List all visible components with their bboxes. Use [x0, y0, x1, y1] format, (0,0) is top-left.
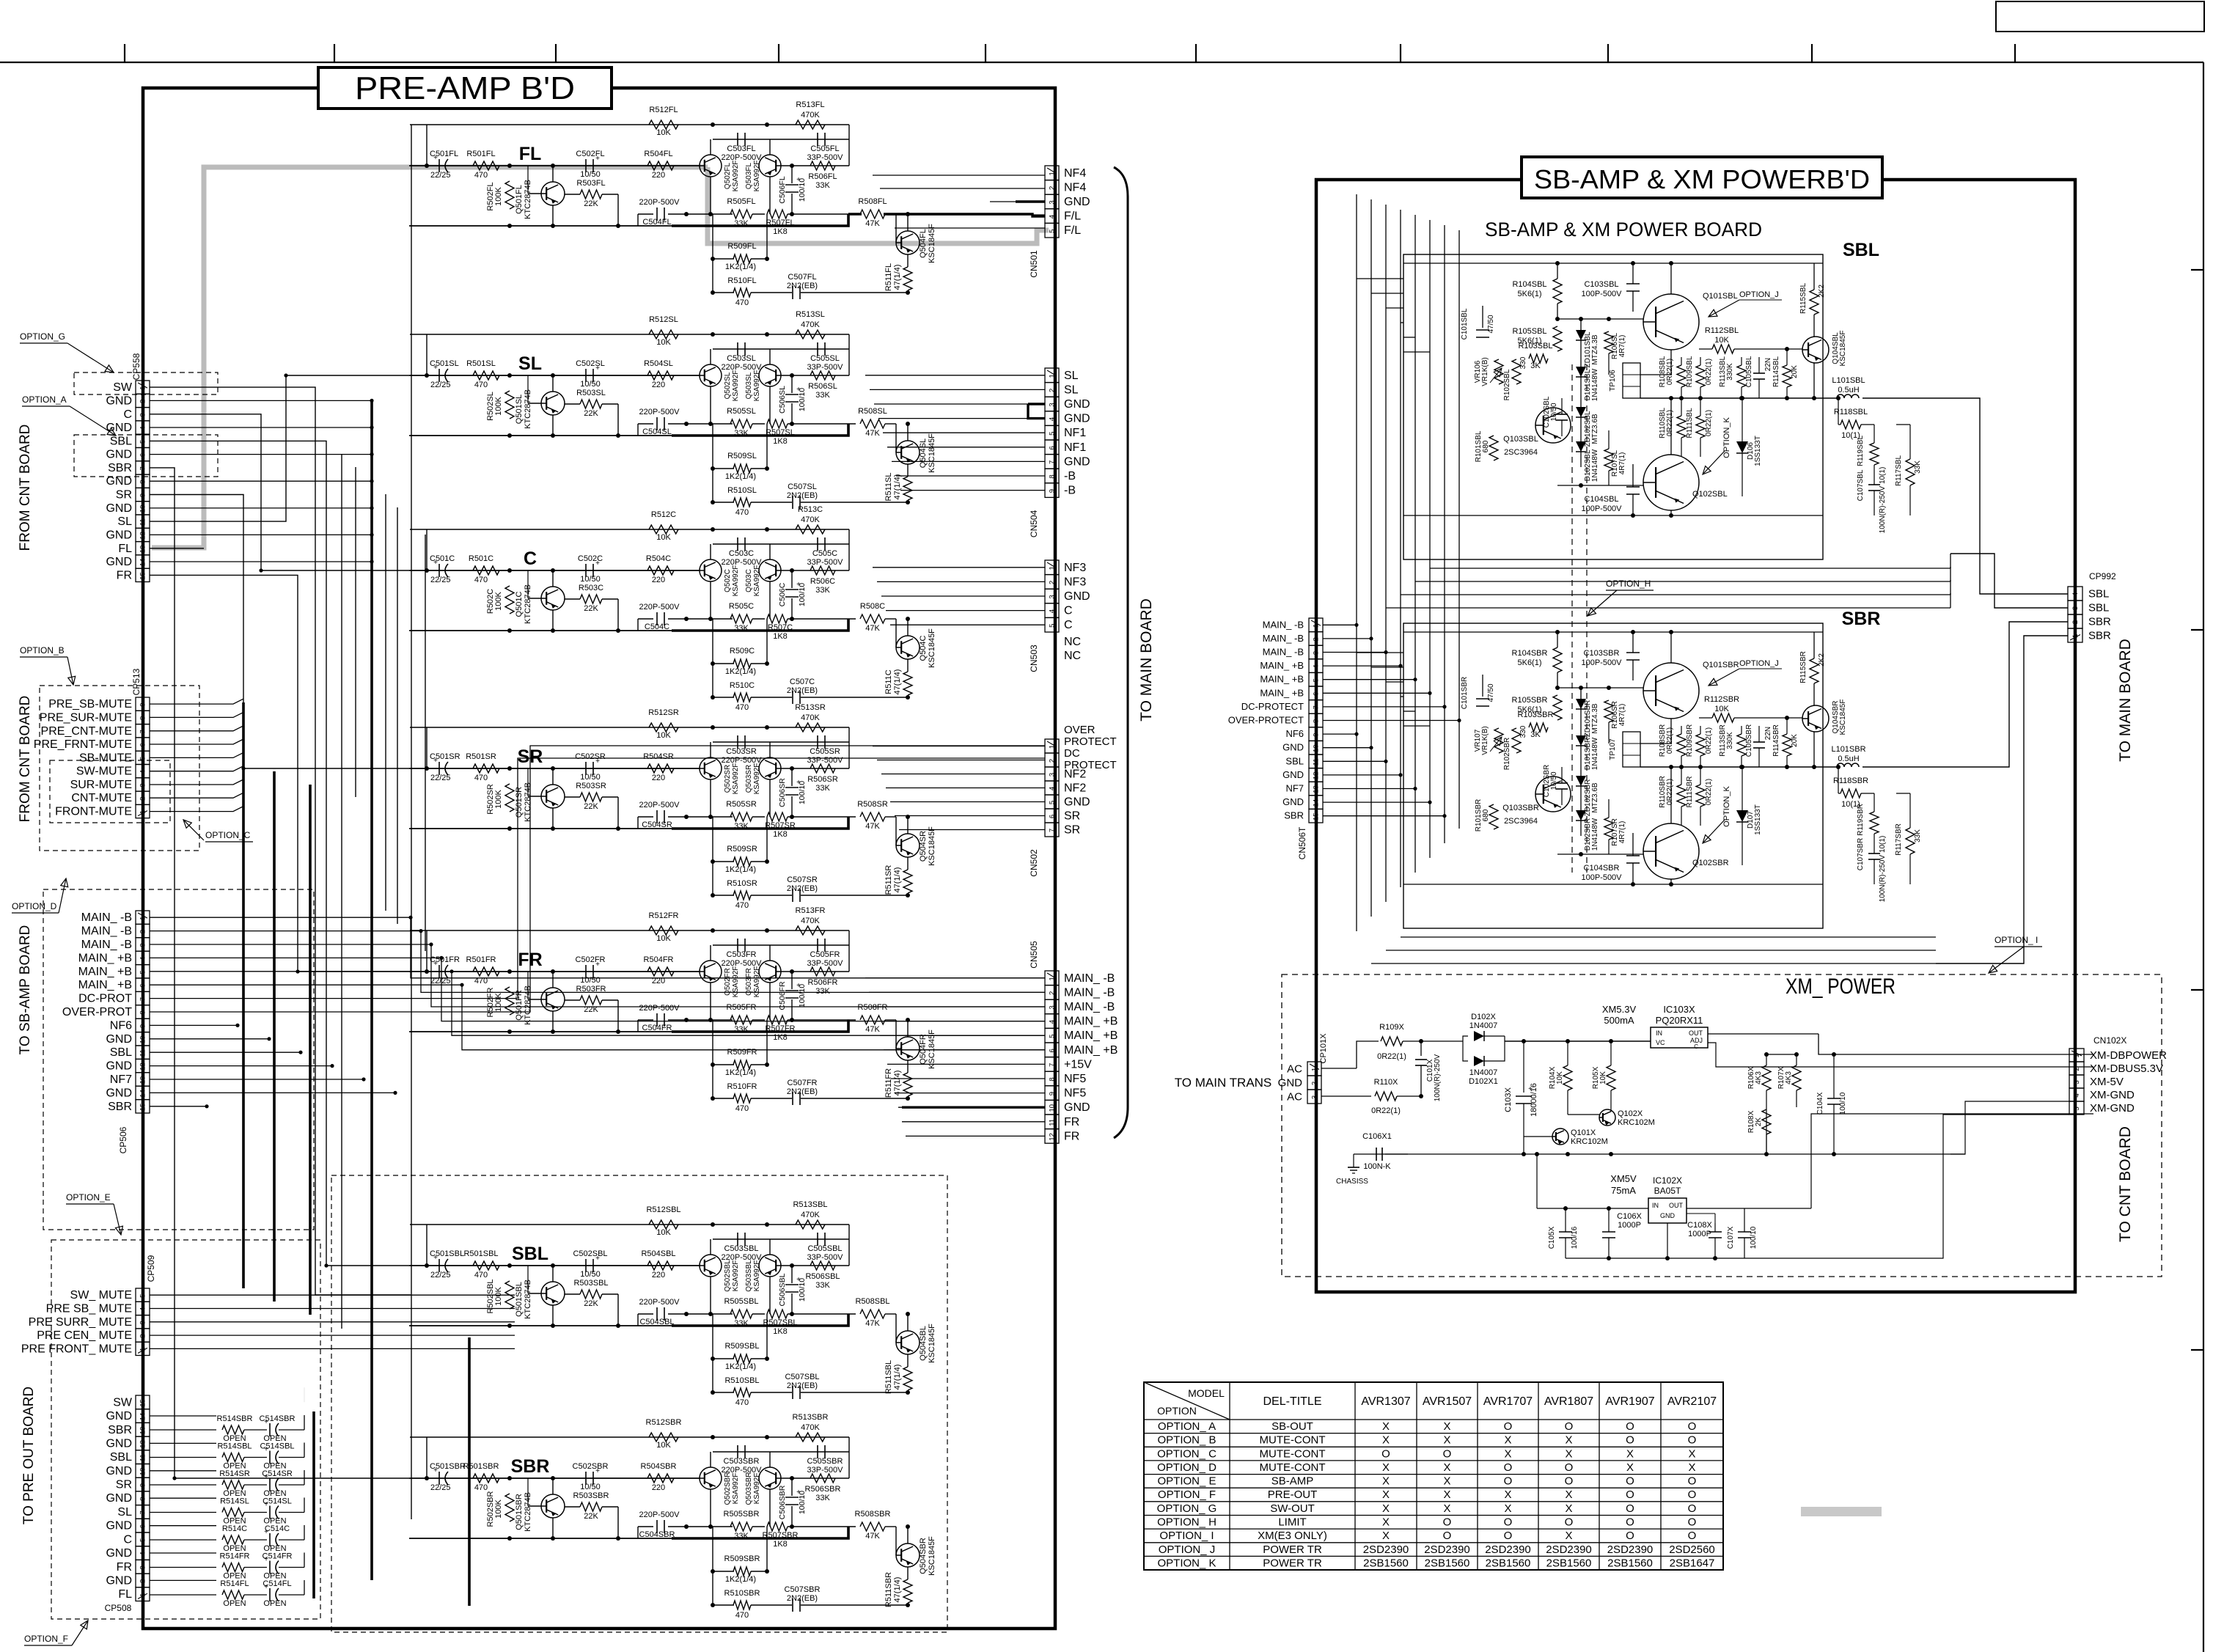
- svg-text:Q502FR: Q502FR: [724, 968, 732, 996]
- svg-text:OPTION_H: OPTION_H: [1606, 579, 1651, 589]
- svg-text:2: 2: [1313, 637, 1321, 641]
- svg-text:47K: 47K: [865, 1319, 880, 1328]
- capacitor C104X 100/10: [1827, 1098, 1841, 1099]
- svg-text:Q503FL: Q503FL: [745, 162, 753, 189]
- svg-text:KTC2874B: KTC2874B: [524, 1280, 532, 1319]
- svg-text:NF6: NF6: [110, 1019, 132, 1032]
- capacitor C101X 100N(R)-250V: [1420, 1041, 1422, 1056]
- right border tick: [2191, 629, 2203, 631]
- svg-text:9: 9: [139, 493, 147, 497]
- svg-text:Q101SBL: Q101SBL: [1703, 292, 1738, 301]
- wire rail to CN102X pin2: [1708, 1043, 2093, 1067]
- svg-text:PQ20RX11: PQ20RX11: [1656, 1015, 1703, 1026]
- svg-text:470: 470: [474, 171, 488, 180]
- resistor R512SBL 10K: [649, 1220, 678, 1229]
- svg-text:NF4: NF4: [1064, 167, 1086, 180]
- svg-text:C507FL: C507FL: [788, 273, 816, 282]
- transistor Q102X KRC102M: [1599, 1109, 1615, 1126]
- svg-text:Q502C: Q502C: [724, 569, 732, 592]
- svg-text:10K: 10K: [1714, 705, 1729, 713]
- transistor Q103SBL 2SC3964: [1535, 408, 1571, 443]
- transistor Q101X KRC102M: [1552, 1128, 1568, 1145]
- svg-text:C504FR: C504FR: [642, 1024, 672, 1032]
- svg-text:C514SL: C514SL: [263, 1497, 292, 1506]
- svg-text:SBR: SBR: [108, 1101, 132, 1113]
- svg-text:MTZ4.3B: MTZ4.3B: [1591, 334, 1599, 364]
- svg-text:R503C: R503C: [579, 584, 603, 592]
- wire Q102 base rail: [1557, 853, 1643, 855]
- svg-text:14: 14: [139, 1090, 147, 1098]
- svg-text:15: 15: [139, 1104, 147, 1112]
- svg-text:O: O: [1565, 1420, 1574, 1433]
- svg-text:GND: GND: [1282, 769, 1304, 780]
- svg-text:0R22(1): 0R22(1): [1705, 779, 1713, 805]
- resistor R503SL 22K: [580, 400, 602, 408]
- channel C input wire: [409, 570, 700, 571]
- svg-text:0R22(1): 0R22(1): [1377, 1052, 1406, 1061]
- resistor R512FR 10K: [649, 926, 678, 935]
- svg-text:C514SBR: C514SBR: [260, 1414, 296, 1423]
- resistor R514SL OPEN: [150, 1512, 216, 1513]
- transistor Q502FL KSA992F: [700, 155, 722, 177]
- CP513 spine wire: [142, 820, 144, 911]
- svg-text:R506SBL: R506SBL: [805, 1272, 840, 1281]
- svg-text:1000P: 1000P: [1618, 1221, 1641, 1230]
- svg-text:2K2: 2K2: [1818, 284, 1826, 298]
- svg-text:F/L: F/L: [1064, 224, 1081, 237]
- svg-text:12: 12: [139, 1440, 147, 1448]
- svg-text:10/50: 10/50: [1550, 771, 1558, 790]
- gray highlighted FL signal trace: [152, 167, 708, 548]
- svg-text:3: 3: [139, 943, 147, 947]
- svg-text:8: 8: [1049, 474, 1057, 478]
- svg-text:R112SBR: R112SBR: [1704, 695, 1739, 704]
- svg-text:4: 4: [1049, 787, 1057, 790]
- svg-text:R501SR: R501SR: [466, 752, 496, 761]
- svg-text:R501SBL: R501SBL: [463, 1249, 498, 1258]
- svg-text:XM_ POWER: XM_ POWER: [1786, 974, 1895, 999]
- resistor R508SR 47K: [860, 812, 885, 821]
- resistor R508SBL 47K: [860, 1310, 885, 1318]
- svg-text:10K: 10K: [656, 731, 671, 740]
- CP509 spine wire: [142, 1357, 144, 1395]
- transistor Q503SL KSA992F: [759, 364, 781, 386]
- diode D107 1SS133T: [1736, 810, 1748, 822]
- svg-text:C505FR: C505FR: [810, 950, 840, 959]
- resistor R503SR 22K: [580, 793, 602, 801]
- svg-text:PRE_SB-MUTE: PRE_SB-MUTE: [48, 698, 132, 711]
- svg-text:2: 2: [139, 400, 147, 403]
- resistor R119SBR 10(1): [1870, 812, 1879, 834]
- svg-text:47K: 47K: [865, 624, 880, 633]
- svg-text:R508SR: R508SR: [857, 800, 888, 809]
- svg-text:MAIN_ +B: MAIN_ +B: [1260, 687, 1304, 698]
- svg-text:R510FR: R510FR: [727, 1082, 757, 1091]
- wire CP558 pin1 SW route: [150, 387, 411, 1295]
- svg-text:9: 9: [139, 1483, 147, 1487]
- svg-text:C106X: C106X: [1617, 1212, 1642, 1221]
- svg-text:X: X: [1565, 1502, 1572, 1515]
- svg-text:6: 6: [1049, 1049, 1057, 1052]
- svg-text:Q503SR: Q503SR: [745, 765, 753, 793]
- svg-text:X: X: [1565, 1530, 1572, 1542]
- resistor R505SBL 33K: [730, 1310, 752, 1318]
- svg-text:4: 4: [139, 426, 147, 430]
- svg-text:10K: 10K: [656, 1441, 671, 1450]
- svg-text:R511FL: R511FL: [884, 263, 893, 291]
- svg-text:6: 6: [1049, 815, 1057, 818]
- svg-text:SBL: SBL: [2088, 588, 2109, 601]
- svg-text:X: X: [1382, 1530, 1390, 1542]
- resistor R507SL 1K8: [767, 419, 788, 428]
- NFB bold wire: [672, 424, 848, 436]
- wire C503/C505 row: [713, 1451, 849, 1453]
- wire CP558 GND stub: [150, 454, 372, 455]
- svg-text:R513C: R513C: [798, 505, 823, 514]
- right border tick: [2191, 1349, 2203, 1351]
- capacitor C501FR 22/25: [438, 965, 440, 978]
- svg-text:FROM CNT BOARD: FROM CNT BOARD: [18, 696, 33, 823]
- svg-text:220: 220: [652, 774, 665, 782]
- wire C503/C505 row: [713, 543, 849, 545]
- svg-text:CP513: CP513: [131, 668, 142, 695]
- capacitor C503SL 220P-500V: [737, 342, 738, 356]
- svg-text:KSA992F: KSA992F: [732, 565, 740, 597]
- svg-text:C505SBL: C505SBL: [807, 1244, 842, 1253]
- svg-text:100K: 100K: [494, 1499, 503, 1518]
- wire stubs CP506 lower: [150, 1024, 238, 1026]
- svg-text:100P-500V: 100P-500V: [1581, 504, 1622, 513]
- resistor R504FR 220: [647, 967, 674, 976]
- NFB bold wire: [672, 214, 848, 226]
- svg-text:X: X: [1382, 1475, 1390, 1488]
- svg-text:CHASISS: CHASISS: [1336, 1178, 1368, 1186]
- svg-text:KSA992F: KSA992F: [753, 763, 761, 795]
- svg-text:Q501C: Q501C: [515, 592, 524, 617]
- capacitor C505C 33P-500V: [817, 537, 818, 551]
- transistor Q502SL KSA992F: [700, 364, 722, 386]
- svg-text:+: +: [1528, 1085, 1533, 1093]
- svg-text:R114SBL: R114SBL: [1772, 356, 1780, 388]
- resistor R506SBL 33K: [810, 1261, 835, 1270]
- svg-text:C505FL: C505FL: [810, 144, 839, 153]
- svg-text:KSA992F: KSA992F: [753, 1473, 761, 1505]
- capacitor C506SL 100/10: [791, 375, 793, 393]
- svg-text:R109X: R109X: [1379, 1023, 1404, 1032]
- svg-text:OPTION_ J: OPTION_ J: [1159, 1543, 1216, 1556]
- svg-text:O: O: [1443, 1530, 1452, 1542]
- svg-text:5: 5: [139, 1538, 147, 1542]
- svg-text:GND: GND: [106, 1087, 132, 1099]
- long bottom interconnects SBL: [1430, 568, 1950, 569]
- svg-text:CN504: CN504: [1029, 510, 1039, 537]
- svg-text:C104SBL: C104SBL: [1584, 495, 1618, 504]
- channel C top feedback wire: [410, 529, 849, 530]
- svg-text:R514C: R514C: [222, 1524, 247, 1533]
- svg-text:100K: 100K: [494, 186, 503, 205]
- svg-text:KSC1845F: KSC1845F: [928, 1536, 936, 1576]
- svg-text:GND: GND: [106, 449, 132, 461]
- svg-text:10/50: 10/50: [580, 773, 601, 782]
- resistor R514FR OPEN: [150, 1567, 216, 1568]
- svg-text:10K: 10K: [656, 934, 671, 943]
- resistor R118SBL 10(1): [1838, 424, 1841, 425]
- svg-text:R110X: R110X: [1374, 1078, 1398, 1087]
- svg-text:C506C: C506C: [778, 582, 787, 606]
- svg-text:X: X: [1565, 1447, 1572, 1460]
- svg-text:3: 3: [1049, 595, 1057, 598]
- svg-text:R510SR: R510SR: [727, 879, 757, 888]
- svg-text:C103X: C103X: [1504, 1087, 1513, 1112]
- svg-text:FL: FL: [118, 1588, 132, 1601]
- svg-text:MAIN_ +B: MAIN_ +B: [1260, 660, 1304, 671]
- svg-text:R514SL: R514SL: [220, 1497, 249, 1506]
- svg-text:MAIN_ -B: MAIN_ -B: [81, 939, 132, 951]
- resistor R514SBR OPEN: [150, 1429, 216, 1431]
- svg-text:5: 5: [139, 970, 147, 974]
- svg-text:22K: 22K: [584, 1299, 598, 1308]
- svg-text:22/25: 22/25: [430, 171, 451, 180]
- svg-text:5: 5: [1313, 678, 1321, 682]
- svg-text:Q103SBR: Q103SBR: [1502, 804, 1539, 812]
- svg-text:47(1/4): 47(1/4): [893, 1365, 902, 1390]
- svg-text:X: X: [1504, 1434, 1511, 1447]
- svg-text:L101SBL: L101SBL: [1832, 376, 1865, 385]
- svg-text:10K: 10K: [656, 1228, 671, 1237]
- potentiometer VR106 VR1K(B): [1494, 359, 1503, 384]
- svg-text:X: X: [1443, 1475, 1450, 1488]
- svg-text:R514FL: R514FL: [220, 1579, 249, 1588]
- XM5V rail: [1537, 1208, 1648, 1209]
- transistor Q101SBL: [1643, 294, 1699, 350]
- svg-text:5: 5: [1049, 801, 1057, 804]
- svg-text:Q102X: Q102X: [1618, 1109, 1643, 1118]
- svg-text:C: C: [123, 408, 132, 421]
- svg-text:CN501: CN501: [1029, 250, 1039, 278]
- svg-text:MAIN_ +B: MAIN_ +B: [1064, 1016, 1117, 1028]
- ground CHASISS: [1353, 1154, 1354, 1167]
- svg-text:47K: 47K: [865, 822, 880, 831]
- svg-text:+: +: [796, 176, 801, 184]
- svg-text:2: 2: [139, 1579, 147, 1583]
- svg-text:XM-GND: XM-GND: [2090, 1102, 2135, 1115]
- svg-text:O: O: [1565, 1475, 1574, 1488]
- resistor R108SBR 0R22(1): [1677, 734, 1686, 756]
- channel SR input wire: [409, 768, 700, 769]
- wires channels to CN connectors: [873, 175, 1045, 176]
- svg-text:AVR1707: AVR1707: [1483, 1395, 1533, 1408]
- resistor R501C 470: [473, 566, 499, 575]
- svg-text:O: O: [1688, 1530, 1697, 1542]
- svg-text:R505SBL: R505SBL: [724, 1297, 758, 1306]
- svg-text:Q504FL: Q504FL: [919, 229, 928, 258]
- svg-text:X: X: [1565, 1434, 1572, 1447]
- svg-text:+: +: [796, 1488, 801, 1497]
- svg-text:47(1/4): 47(1/4): [893, 265, 902, 290]
- svg-text:22K: 22K: [584, 604, 598, 613]
- svg-text:1K8: 1K8: [773, 1033, 788, 1042]
- svg-text:C505SL: C505SL: [810, 354, 840, 363]
- inductor L101SBR 0.5uH: [1837, 763, 1859, 767]
- svg-text:6: 6: [1313, 692, 1321, 696]
- svg-text:10: 10: [139, 1036, 147, 1044]
- svg-text:R509FL: R509FL: [727, 242, 756, 251]
- resistor R514SR OPEN: [150, 1484, 216, 1486]
- transistor Q501FR KTC2874B: [541, 988, 565, 1011]
- resistor R505SBR 33K: [730, 1522, 752, 1531]
- svg-text:3K: 3K: [1530, 730, 1541, 739]
- svg-text:2: 2: [1049, 581, 1057, 584]
- svg-text:O: O: [1565, 1516, 1574, 1529]
- svg-text:10K: 10K: [656, 338, 671, 347]
- svg-text:20K: 20K: [1791, 365, 1799, 378]
- resistor R110SBR 0R22(1): [1677, 785, 1686, 807]
- resistor R513FR 470K: [796, 926, 825, 935]
- svg-text:XM-DBPOWER: XM-DBPOWER: [2090, 1049, 2167, 1062]
- svg-text:5: 5: [139, 1294, 147, 1298]
- channel SBR bottom wire: [409, 1538, 672, 1539]
- svg-text:Q503C: Q503C: [745, 569, 753, 592]
- resistor R112SBR 10K: [1712, 713, 1734, 722]
- svg-text:100N(R)-250V 10(1): 100N(R)-250V 10(1): [1879, 836, 1887, 903]
- svg-text:1N4007: 1N4007: [1469, 1068, 1498, 1077]
- svg-text:GND: GND: [1064, 796, 1090, 809]
- svg-text:10K: 10K: [1599, 1071, 1607, 1084]
- svg-text:C506SR: C506SR: [778, 778, 787, 807]
- svg-text:MTZ3.6B: MTZ3.6B: [1591, 782, 1599, 812]
- svg-text:3: 3: [139, 413, 147, 416]
- svg-text:SBL: SBL: [110, 435, 132, 447]
- resistor R506C 33K: [810, 566, 835, 575]
- svg-text:10/50: 10/50: [1550, 403, 1558, 421]
- long vertical risers from C514 column: [468, 1337, 471, 1606]
- resistor R512SR 10K: [649, 723, 678, 732]
- svg-text:R512SL: R512SL: [649, 315, 678, 324]
- capacitor C501SBR 22/25: [438, 1472, 440, 1485]
- svg-text:O: O: [1626, 1530, 1634, 1542]
- resistor R508SBR 47K: [860, 1522, 885, 1531]
- svg-text:MAIN_ -B: MAIN_ -B: [1263, 647, 1304, 658]
- svg-text:X: X: [1688, 1461, 1695, 1474]
- wire FL feeder from CP558 pin13: [150, 548, 204, 549]
- resistor R508FL 47K: [860, 210, 885, 219]
- resistor R505C 33K: [730, 614, 752, 623]
- svg-text:Q502SR: Q502SR: [724, 765, 732, 793]
- capacitor C504SBL 220P-500V: [638, 1313, 653, 1315]
- svg-text:R112SBL: R112SBL: [1705, 326, 1739, 335]
- svg-text:2N2(EB): 2N2(EB): [787, 491, 818, 500]
- svg-text:10K: 10K: [656, 533, 671, 542]
- svg-text:470K: 470K: [801, 1423, 820, 1432]
- svg-text:O: O: [1565, 1461, 1574, 1474]
- svg-text:C506SBR: C506SBR: [778, 1485, 787, 1519]
- svg-text:4: 4: [139, 957, 147, 961]
- capacitor C502FL 10/50: [585, 159, 587, 172]
- svg-text:Q101X: Q101X: [1571, 1128, 1596, 1137]
- wire Q101 base rail: [1557, 318, 1643, 320]
- svg-text:10/50: 10/50: [580, 380, 601, 389]
- svg-text:R115SBR: R115SBR: [1799, 651, 1808, 683]
- resistor R510FL 470 / capacitor C507FL 2N2(EB): [713, 292, 734, 293]
- svg-text:SB-AMP: SB-AMP: [1271, 1475, 1314, 1488]
- svg-text:1K2(1/4): 1K2(1/4): [725, 1575, 756, 1584]
- wire CP558 GND stub: [150, 427, 372, 428]
- capacitor C502C 10/50: [585, 564, 587, 577]
- test point TP106: [1623, 363, 1640, 398]
- svg-text:R504FL: R504FL: [644, 150, 672, 158]
- capacitor C107SBR 100N(R)-250V: [1868, 853, 1880, 854]
- svg-text:GND: GND: [106, 1033, 132, 1046]
- svg-text:100/10: 100/10: [1750, 1226, 1758, 1249]
- channel FR top feedback wire: [410, 930, 849, 931]
- svg-text:10K: 10K: [656, 128, 671, 137]
- svg-text:R508C: R508C: [860, 602, 885, 611]
- transistor Q503FL KSA992F: [759, 155, 781, 177]
- title box PRE-AMP B'D: [318, 67, 612, 109]
- resistor R101SBL 680: [1489, 436, 1498, 460]
- svg-text:C503SBL: C503SBL: [724, 1244, 758, 1253]
- connector CN501: [1045, 166, 1059, 180]
- svg-text:2SD2390: 2SD2390: [1424, 1543, 1470, 1556]
- svg-text:OPTION_ I: OPTION_ I: [1994, 935, 2038, 945]
- svg-text:LIMIT: LIMIT: [1278, 1516, 1306, 1529]
- svg-text:47(1/4): 47(1/4): [893, 474, 902, 500]
- resistor R514SBL OPEN: [150, 1457, 216, 1458]
- svg-text:10/50: 10/50: [580, 1483, 601, 1491]
- resistor R105SBR 5K6(1): [1553, 695, 1562, 720]
- capacitor C503C 220P-500V: [737, 537, 738, 551]
- svg-text:C502SBR: C502SBR: [573, 1462, 609, 1471]
- capacitor C501C 22/25: [438, 564, 440, 577]
- svg-text:470: 470: [735, 508, 749, 517]
- title box SB-AMP & XM POWERB'D: [1522, 157, 1882, 198]
- transistor Q503SR KSA992F: [759, 757, 781, 779]
- svg-text:470: 470: [735, 1611, 749, 1620]
- svg-text:MAIN_ -B: MAIN_ -B: [81, 911, 132, 924]
- svg-text:O: O: [1688, 1488, 1697, 1501]
- svg-text:OPTION_ D: OPTION_ D: [1157, 1461, 1216, 1474]
- resistor R513SBR 470K: [796, 1433, 825, 1442]
- svg-text:+: +: [796, 386, 801, 394]
- svg-text:KSA992F: KSA992F: [753, 565, 761, 597]
- svg-text:33K: 33K: [815, 1494, 830, 1502]
- svg-text:22K: 22K: [584, 1512, 598, 1521]
- svg-text:TP106: TP106: [1609, 370, 1617, 392]
- svg-text:4R7(1): 4R7(1): [1618, 335, 1626, 358]
- svg-text:8: 8: [139, 1497, 147, 1501]
- svg-text:7: 7: [139, 466, 147, 470]
- svg-text:CN502: CN502: [1029, 849, 1039, 877]
- svg-text:GND: GND: [1064, 590, 1090, 603]
- svg-text:R511SR: R511SR: [884, 865, 893, 895]
- NFB bold wire: [672, 619, 848, 631]
- svg-text:4: 4: [139, 1307, 147, 1311]
- resistor R115SBL 2K2: [1810, 290, 1819, 315]
- svg-text:C504FL: C504FL: [642, 218, 671, 227]
- svg-text:C502FL: C502FL: [576, 150, 604, 158]
- svg-text:9: 9: [1049, 1092, 1057, 1095]
- svg-text:O: O: [1504, 1530, 1513, 1542]
- dashed option box SB-AMP channels: [331, 1175, 947, 1632]
- svg-text:AVR2107: AVR2107: [1667, 1395, 1717, 1408]
- channel SL bottom wire: [409, 435, 672, 436]
- svg-text:C: C: [1694, 1043, 1698, 1050]
- svg-text:220P-500V: 220P-500V: [639, 1298, 680, 1307]
- svg-text:R504C: R504C: [646, 554, 671, 563]
- svg-text:X: X: [1504, 1447, 1511, 1460]
- svg-text:KTC2874B: KTC2874B: [524, 782, 532, 822]
- svg-text:C108X: C108X: [1687, 1221, 1712, 1230]
